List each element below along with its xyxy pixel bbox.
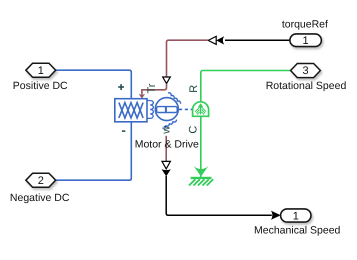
wire: blue electrical from Positive DC to winding box top xyxy=(56,70,132,99)
svg-text:Negative DC: Negative DC xyxy=(10,192,70,204)
Motor & Drive block icon: winding lattice (XXX) xyxy=(119,103,143,118)
svg-text:2: 2 xyxy=(38,175,44,187)
mechanical rotational reference: bar xyxy=(191,177,212,179)
inport torqueRef: oval 1 xyxy=(290,34,322,47)
wire: green mechanical from sensor dome to rotational reference xyxy=(200,116,202,177)
wire: black signal to Mechanical Speed outport xyxy=(166,176,272,215)
svg-text:w: w xyxy=(161,126,173,135)
port Negative DC: hexagon 2 xyxy=(26,173,56,187)
sensor dome (rotational motion gauge) xyxy=(193,102,209,117)
svg-text:torqueRef: torqueRef xyxy=(282,18,328,30)
label + (positive terminal) xyxy=(118,84,124,90)
svg-text:3: 3 xyxy=(302,65,308,77)
sensor dome hatching left xyxy=(195,107,200,114)
arrowhead into Mechanical Speed outport xyxy=(271,211,281,220)
filled black triangle (signal start) xyxy=(162,169,171,176)
svg-text:1: 1 xyxy=(303,35,309,47)
outport Mechanical Speed: oval 1 xyxy=(281,209,311,222)
svg-text:Mechanical Speed: Mechanical Speed xyxy=(254,224,341,236)
Motor & Drive block icon: commutator bar xyxy=(157,107,178,113)
svg-text:1: 1 xyxy=(38,65,44,77)
sensor dome hatching right xyxy=(201,107,206,114)
Tr port hollow triangle xyxy=(163,77,171,84)
Motor & Drive block icon: maroon torque arrow into winding xyxy=(142,84,167,95)
svg-text:Motor & Drive: Motor & Drive xyxy=(135,138,199,150)
Motor & Drive block icon: stubs from box to coil xyxy=(147,101,150,119)
Motor & Drive block icon: winding box xyxy=(115,99,147,122)
svg-text:C: C xyxy=(187,126,199,134)
svg-text:Positive DC: Positive DC xyxy=(13,80,68,92)
hollow triangle at PS line end (w output) xyxy=(162,161,170,169)
wire: maroon physical signal from w port down xyxy=(165,136,167,161)
Motor & Drive block icon: coil (4 bumps) xyxy=(150,101,153,119)
mechanical rotational reference: hatches xyxy=(189,179,213,185)
svg-text:R: R xyxy=(188,85,200,93)
svg-text:Tr: Tr xyxy=(146,83,158,93)
svg-text:1: 1 xyxy=(293,211,299,223)
Motor & Drive block icon: machine circle xyxy=(155,98,178,121)
label - (negative terminal) xyxy=(122,130,125,132)
green arrowhead into rotational reference xyxy=(194,166,209,177)
Motor & Drive block icon: bottom-left rotor squiggle xyxy=(162,120,176,129)
port Positive DC: hexagon 1 xyxy=(26,63,56,77)
Motor & Drive block icon: top-right rotor squiggle xyxy=(168,93,181,104)
svg-text:Rotational Speed: Rotational Speed xyxy=(266,80,347,92)
wire: green mechanical from Rotational Speed to sensor dome xyxy=(201,71,291,102)
wire: black signal from torqueRef inport leftwards xyxy=(225,39,290,41)
sensor dome needle arrow xyxy=(200,105,202,114)
port Rotational Speed: hexagon 3 xyxy=(291,64,321,78)
wire: blue electrical from winding box bottom to Negative DC xyxy=(56,122,132,180)
wire: maroon physical signal torqueRef to Tr port xyxy=(167,40,209,76)
Motor & Drive block icon: dashed shaft line to R port xyxy=(179,108,192,110)
arrowhead hollow left (physical signal end) xyxy=(208,36,216,44)
arrowhead filled black left at converter junction xyxy=(216,36,224,44)
